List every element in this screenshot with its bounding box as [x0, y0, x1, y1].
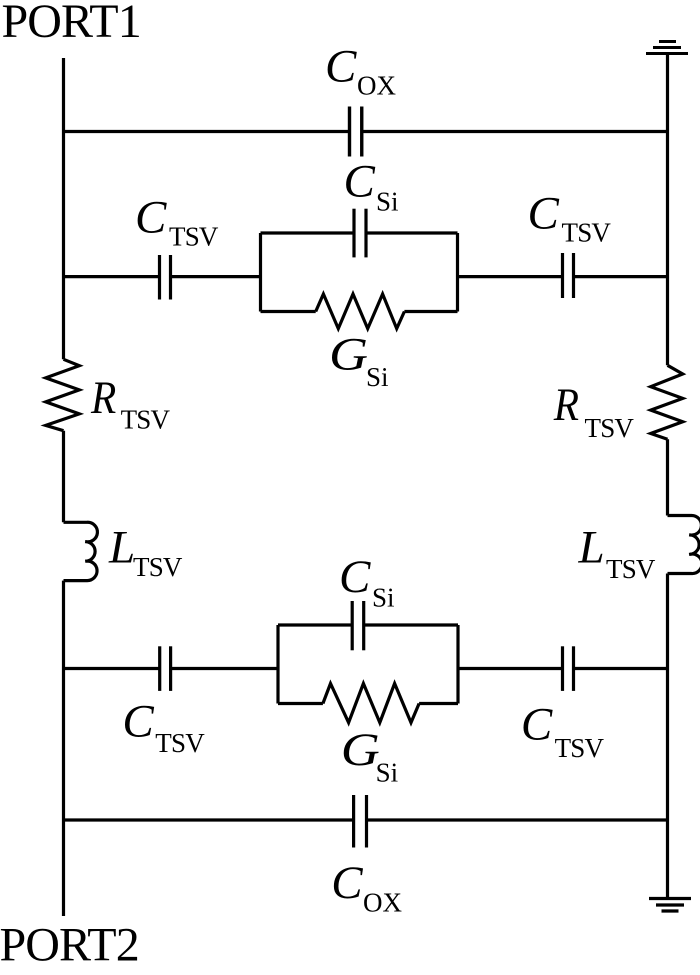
label L_TSV right — [578, 521, 656, 584]
svg-text:TSV: TSV — [155, 728, 205, 758]
svg-text:C: C — [344, 156, 376, 208]
wire right vertical top segment — [666, 54, 669, 366]
svg-text:TSV: TSV — [555, 733, 605, 763]
svg-text:Si: Si — [372, 583, 395, 613]
wire branch2 from left line to C_TSV — [64, 275, 160, 278]
wire branch2 from box to right C_TSV — [458, 275, 563, 278]
capacitor C_OX top plates — [350, 107, 362, 157]
svg-text:G: G — [329, 328, 368, 380]
capacitor C_TSV bottom-right plates — [563, 646, 574, 691]
label R_TSV right — [553, 379, 635, 443]
svg-text:C: C — [331, 857, 363, 909]
label C_Si bottom — [339, 551, 395, 613]
label C_Si top — [344, 156, 399, 217]
wire branch4 from C_OX to right line — [367, 818, 668, 821]
svg-text:PORT2: PORT2 — [0, 919, 139, 972]
wire branch4 from left line to C_OX bottom — [64, 818, 354, 821]
capacitor C_TSV bottom-left plates — [160, 646, 171, 691]
svg-text:TSV: TSV — [606, 554, 656, 584]
svg-text:C: C — [521, 699, 553, 751]
wire top branch right of C_OX — [362, 130, 668, 133]
svg-text:C: C — [325, 41, 357, 93]
svg-text:Si: Si — [376, 187, 399, 217]
svg-text:Si: Si — [366, 362, 389, 392]
label C_TSV bottom-right — [521, 699, 605, 764]
capacitor C_Si bottom plates — [352, 601, 364, 650]
label R_TSV left — [90, 371, 170, 434]
capacitor C_TSV top-right plates — [563, 253, 574, 298]
svg-text:TSV: TSV — [169, 222, 219, 252]
svg-text:C: C — [135, 192, 167, 244]
box bottom (C_Si / G_Si parallel) outline — [278, 625, 458, 704]
resistor R_TSV right zigzag — [651, 365, 683, 439]
label C_TSV top-left — [135, 192, 219, 252]
label L_TSV left — [108, 521, 183, 582]
svg-text:PORT1: PORT1 — [2, 0, 141, 48]
resistor G_Si top zigzag — [316, 294, 405, 329]
svg-text:TSV: TSV — [562, 218, 612, 248]
wire left vertical bottom segment (PORT2 lead) — [62, 581, 65, 916]
resistor G_Si bottom zigzag — [323, 684, 419, 723]
svg-text:C: C — [122, 695, 154, 747]
label G_Si bottom — [341, 723, 398, 787]
svg-text:L: L — [578, 521, 605, 573]
ground top right symbol — [646, 42, 688, 54]
label C_OX top — [325, 41, 396, 101]
svg-text:Si: Si — [376, 758, 399, 788]
box top (C_Si / G_Si parallel) outline — [261, 233, 458, 312]
inductor L_TSV right coil — [668, 515, 700, 573]
label G_Si top — [329, 328, 389, 392]
wire branch3 from C_TSV to box — [171, 667, 278, 670]
ground bottom right symbol — [649, 899, 691, 912]
svg-text:G: G — [341, 723, 380, 775]
inductor L_TSV left coil — [64, 522, 98, 580]
wire branch2 from right C_TSV to right line — [574, 275, 668, 278]
capacitor C_Si top plates — [354, 209, 366, 258]
svg-text:C: C — [528, 188, 560, 240]
label C_TSV top-right — [528, 188, 612, 248]
svg-text:TSV: TSV — [585, 413, 635, 443]
resistor R_TSV left zigzag — [46, 359, 80, 430]
wire left vertical between resistor and inductor — [62, 431, 65, 523]
label C_OX bottom — [331, 857, 402, 918]
capacitor C_OX bottom plates — [354, 795, 367, 848]
wire branch3 from right C_TSV to right line — [574, 667, 668, 670]
wire right vertical between resistor and inductor — [666, 439, 669, 515]
svg-text:OX: OX — [357, 71, 396, 101]
wire left vertical top segment (PORT1 lead) — [62, 58, 65, 359]
wire top branch left of C_OX — [64, 130, 350, 133]
wire branch3 from box to right C_TSV — [458, 667, 563, 670]
svg-text:TSV: TSV — [133, 552, 183, 582]
svg-text:L: L — [108, 521, 135, 573]
svg-text:OX: OX — [363, 887, 402, 917]
wire branch2 from C_TSV to box — [171, 275, 261, 278]
svg-text:C: C — [339, 551, 371, 603]
svg-text:R: R — [90, 371, 116, 423]
wire right vertical bottom segment — [666, 574, 669, 899]
wire branch3 from left line to C_TSV — [64, 667, 160, 670]
svg-text:R: R — [553, 379, 579, 431]
capacitor C_TSV top-left plates — [160, 255, 171, 300]
svg-text:TSV: TSV — [121, 404, 171, 434]
label C_TSV bottom-left — [122, 695, 205, 758]
